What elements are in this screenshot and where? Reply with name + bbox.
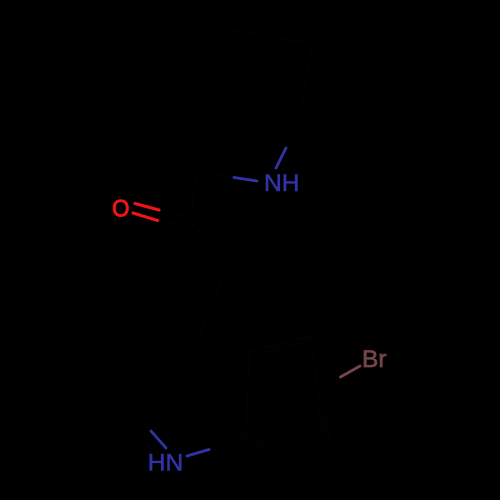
wire cyclopentane C2'-C3' xyxy=(233,30,312,44)
wire indole C3-C3a xyxy=(200,335,250,351)
wire benzene C5-C6 xyxy=(318,395,331,441)
wire cyclopentane C4'-C5' xyxy=(193,92,236,154)
wire indole N1-C2 blue half xyxy=(151,431,166,448)
svg-text:O: O xyxy=(112,195,129,222)
wire indole C3=C2 xyxy=(126,335,200,404)
wire CH2b-C3 xyxy=(200,263,228,335)
wire N-C1' blue half xyxy=(276,148,286,168)
wire benzene C6-C7 xyxy=(288,441,331,466)
wire C=O red half upper xyxy=(135,204,159,211)
wire benzene C7-C7a xyxy=(245,437,288,466)
wire indole C3=C2 inner xyxy=(139,348,195,400)
wire benzene C7=C7a inner xyxy=(254,437,284,457)
wire benzene C7a-C3a fusion xyxy=(245,351,250,437)
wire N-CH2a black half xyxy=(196,171,234,178)
wire benzene C4-C5 xyxy=(311,336,318,395)
wire benzene C5=C6 inner xyxy=(315,400,324,432)
svg-text:NH: NH xyxy=(264,170,299,197)
svg-text:HN: HN xyxy=(148,450,183,477)
wire CH2a-Ccarbonyl xyxy=(191,171,196,223)
wire cyclopentane C5'-C1' xyxy=(236,114,300,154)
wire N-CH2a blue half xyxy=(234,178,257,182)
wire indole N1-C7a black half xyxy=(209,437,245,450)
wire cyclopentane C1'-C2' xyxy=(300,44,312,114)
wire N-C1' black half xyxy=(286,114,300,148)
wire indole N1-C7a blue half xyxy=(187,450,209,457)
wire C=O black half upper xyxy=(159,210,187,217)
wire benzene C3a=C4 inner xyxy=(260,343,303,354)
wire C=O black half lower xyxy=(158,219,180,224)
wire C5-Br maroon half xyxy=(341,366,361,377)
wire C5-Br black half xyxy=(318,378,343,395)
wire cyclopentane C3'-C4' xyxy=(193,30,233,92)
wire Ccarbonyl-CH2b xyxy=(191,223,228,263)
wire benzene C3a-C4 xyxy=(250,336,311,351)
wire C=O red half lower xyxy=(133,213,158,221)
svg-text:Br: Br xyxy=(362,346,387,373)
wire indole N1-C2 black half xyxy=(126,404,151,431)
